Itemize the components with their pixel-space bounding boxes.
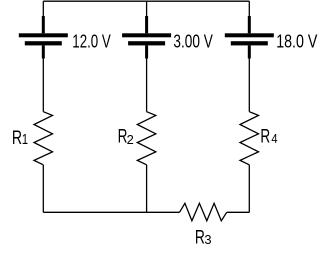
wire column 2 upper (top bus to battery B2) — [146, 1, 148, 17]
label R4 — [260, 127, 277, 148]
battery B1 (12.0 V) — [19, 16, 68, 59]
wire bottom bus right (resistor R3 to column 3) — [227, 211, 250, 213]
svg-text:3.00 V: 3.00 V — [173, 31, 212, 51]
wire top horizontal bus — [43, 0, 249, 2]
wire column 2 lower (resistor R2 to bottom bus junction) — [146, 165, 148, 213]
wire column 1 upper (top bus to battery B1) — [42, 1, 44, 17]
label R2 — [118, 127, 134, 148]
svg-text:2: 2 — [127, 132, 134, 147]
label R1 — [12, 128, 28, 149]
svg-text:12.0 V: 12.0 V — [72, 31, 111, 51]
svg-text:R: R — [12, 128, 22, 149]
label R3 — [195, 227, 212, 248]
battery B2 (3.00 V) — [122, 16, 171, 59]
wire bottom bus left (node between R1, R2 and R3) — [43, 211, 179, 213]
svg-text:R: R — [260, 127, 270, 148]
svg-text:1: 1 — [22, 132, 28, 148]
wire column 3 lower (resistor R4 to bottom bus) — [248, 165, 250, 213]
battery B3 (18.0 V) — [225, 16, 274, 59]
svg-text:3: 3 — [204, 232, 211, 247]
resistor R3 — [180, 203, 227, 221]
resistor R1 — [34, 112, 53, 165]
wire column 3 middle (battery B3 to resistor R4) — [248, 58, 250, 112]
wire column 2 middle (battery B2 to resistor R2) — [146, 58, 148, 112]
resistor R4 — [240, 112, 259, 165]
svg-text:18.0 V: 18.0 V — [276, 31, 317, 51]
resistor R2 — [137, 112, 156, 165]
wire column 1 middle (battery B1 to resistor R1) — [42, 58, 44, 112]
wire column 3 upper (top bus to battery B3) — [248, 1, 250, 17]
wire column 1 lower (resistor R1 to bottom bus) — [42, 165, 44, 213]
svg-text:4: 4 — [271, 131, 277, 146]
